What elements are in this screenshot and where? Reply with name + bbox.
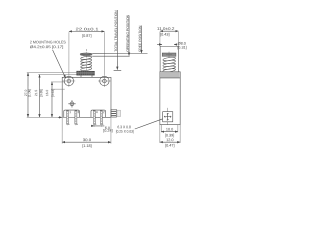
terminal tab 4 xyxy=(93,110,96,126)
total travel label xyxy=(114,10,118,70)
svg-text:[0.39]: [0.39] xyxy=(165,133,175,137)
svg-text:[0.43]: [0.43] xyxy=(160,33,170,37)
svg-text:[0.85]: [0.85] xyxy=(39,89,43,97)
cap side xyxy=(162,52,176,58)
total travel position line xyxy=(114,69,122,71)
svg-text:[1.18]: [1.18] xyxy=(82,144,92,148)
svg-text:4: 4 xyxy=(96,110,98,114)
mounting holes note xyxy=(30,40,66,78)
svg-text:3: 3 xyxy=(77,110,79,114)
svg-text:2 MOUNTING HOLES: 2 MOUNTING HOLES xyxy=(30,40,66,44)
free position line xyxy=(92,53,147,55)
side knurl band xyxy=(160,72,180,78)
terminal block right xyxy=(91,110,106,117)
svg-text:[0.24]: [0.24] xyxy=(103,129,113,133)
plunger cap xyxy=(80,53,92,56)
left dim line 2 xyxy=(38,75,40,117)
svg-text:22.0±0.1: 22.0±0.1 xyxy=(76,27,99,31)
svg-text:10.0: 10.0 xyxy=(166,127,173,131)
dim 10.0 xyxy=(161,125,178,138)
svg-text:[0.47]: [0.47] xyxy=(165,144,175,148)
svg-text:[1.06]: [1.06] xyxy=(27,89,31,97)
mounting hole left xyxy=(63,75,76,87)
left dim line 1 xyxy=(27,73,29,117)
bottom dim 30.0 xyxy=(62,118,111,148)
plunger housing side xyxy=(160,46,178,72)
side body xyxy=(160,72,180,125)
side tab on right edge xyxy=(111,110,121,118)
coil spring front xyxy=(80,56,91,71)
dim 12.0 xyxy=(160,125,180,148)
svg-text:2: 2 xyxy=(103,110,105,114)
mounting hole right xyxy=(98,75,111,87)
dim 6.0 terminals xyxy=(91,126,113,133)
terminal tab 1 xyxy=(66,110,69,125)
operating label xyxy=(126,14,130,55)
svg-text:[0.87]: [0.87] xyxy=(82,34,92,38)
terminal size note xyxy=(116,119,163,134)
svg-text:1: 1 xyxy=(69,110,71,114)
svg-text:6.3 X 0.8: 6.3 X 0.8 xyxy=(117,125,131,129)
svg-text:12.0: 12.0 xyxy=(166,138,173,142)
free position label xyxy=(138,25,142,53)
plunger neck xyxy=(81,75,92,77)
position marker xyxy=(68,100,75,107)
svg-text:[0.63]: [0.63] xyxy=(51,89,55,97)
knurled base xyxy=(77,71,95,75)
operating position line xyxy=(92,55,129,57)
dim dia 8.0 xyxy=(157,42,187,50)
terminal tab 2 xyxy=(100,110,103,126)
terminal block left xyxy=(64,110,80,117)
svg-text:16.0: 16.0 xyxy=(45,90,49,97)
left dim line 3 xyxy=(51,82,53,117)
coil spring side xyxy=(163,57,176,73)
svg-text:[0.25 X 0.03]: [0.25 X 0.03] xyxy=(116,130,134,134)
plunger centerline xyxy=(85,49,87,71)
svg-text:Ø4.2±0.05 [0.17]: Ø4.2±0.05 [0.17] xyxy=(30,45,64,49)
left dim extension lines xyxy=(27,72,77,74)
svg-text:11.0±0.2: 11.0±0.2 xyxy=(157,27,175,31)
dim 11.0 top xyxy=(157,27,179,46)
svg-text:30.0: 30.0 xyxy=(83,138,91,142)
dim 22.0 top xyxy=(69,27,105,75)
side body top line xyxy=(160,77,180,79)
svg-text:21.5: 21.5 xyxy=(34,90,38,97)
screw terminal side xyxy=(163,108,173,125)
front view body xyxy=(62,77,111,117)
terminal tab 3 xyxy=(75,110,78,125)
